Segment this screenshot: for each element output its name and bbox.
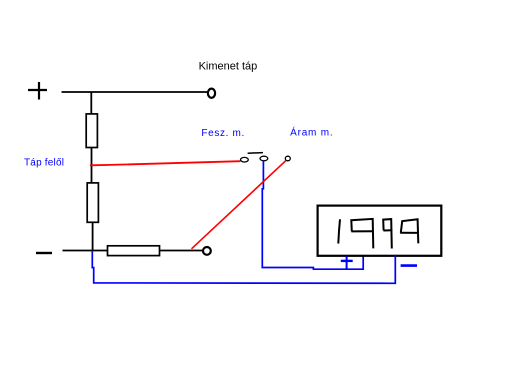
node: bottom output terminal [203,247,211,255]
wire (red): divider tap to switch contact Fesz. m. [90,161,240,165]
wire: minus rail [63,250,109,252]
resistor R3 (shunt) [108,246,160,256]
resistor R1 [86,114,97,148]
meter - terminal marking [401,264,417,267]
meter M1 digit 9 (units) [400,219,419,243]
switch SW1 arm [248,152,263,155]
switch SW1 contact: Fesz. m. [241,157,249,162]
node: output terminal (Kimenet táp) [208,89,215,98]
svg-text:Kimenet táp: Kimenet táp [199,61,258,73]
meter + terminal marking [341,256,353,268]
terminal - symbol [36,252,52,254]
wire: R1 to R2 [91,148,93,184]
meter M1 display body [318,206,442,256]
svg-text:Áram m.: Áram m. [290,126,333,139]
wire (blue): minus rail to meter - input [92,252,395,284]
wire: top rail to R1 [90,92,92,115]
wire: top output rail [62,91,208,93]
wire (blue): switch pole to meter + input [262,161,363,269]
switch SW1 contact: common (pole) [260,156,268,161]
wire (red): shunt terminal to Áram m. contact [192,161,286,249]
terminal + symbol [28,82,47,100]
meter M1 digit 9 (tens) [383,219,392,248]
svg-text:Táp felől: Táp felől [24,158,64,169]
resistor R2 [87,183,98,222]
meter M1 digit 9 (hundreds) [351,219,373,249]
svg-text:Fesz. m.: Fesz. m. [201,128,245,139]
switch SW1 contact: Áram m. [285,156,290,161]
wire: R2 to minus rail junction [92,222,94,251]
wire: shunt to bottom terminal [160,250,203,252]
meter M1 digit 1 [338,219,340,243]
